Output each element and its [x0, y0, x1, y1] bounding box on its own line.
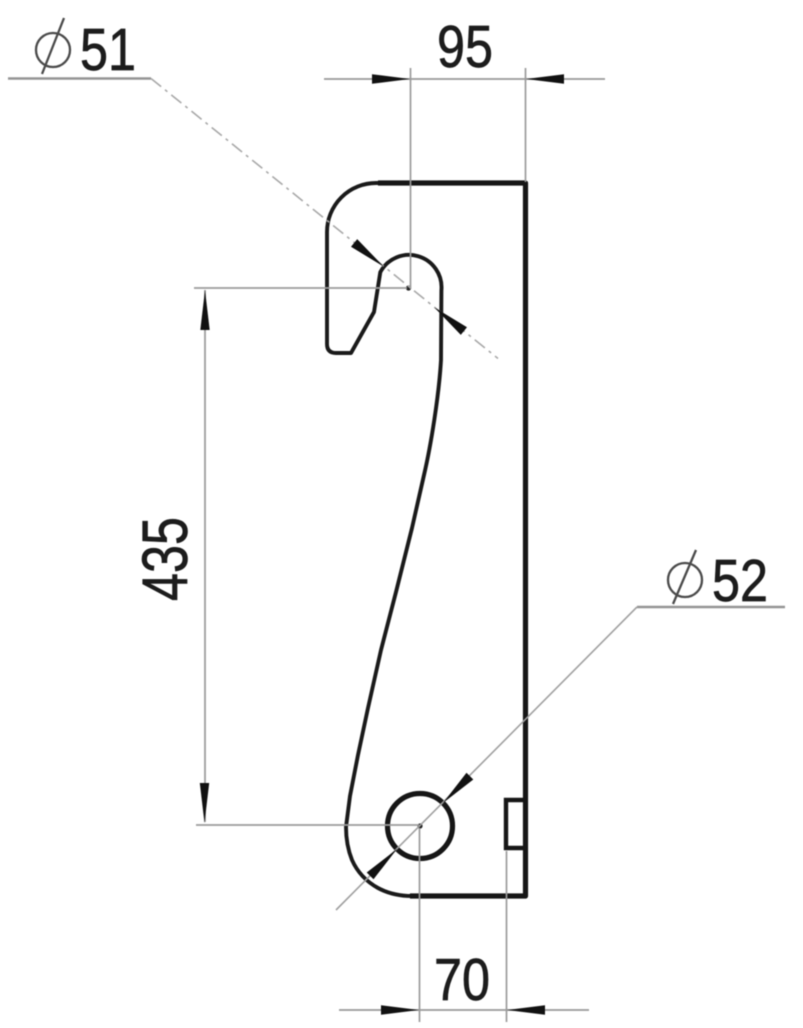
dim 70: dimension line — [339, 1009, 589, 1011]
svg-text:70: 70 — [434, 947, 490, 1013]
svg-text:51: 51 — [80, 17, 136, 83]
dim 435: bottom arrow — [200, 783, 209, 823]
label ⌀51: leader dash-dot line — [151, 79, 498, 359]
dim 70: right extension line — [506, 851, 508, 1022]
svg-text:52: 52 — [712, 548, 768, 614]
label ⌀52: leader line — [336, 607, 637, 910]
dim 435: bottom extension line — [196, 824, 419, 826]
label ⌀51: shoulder line — [8, 77, 151, 80]
dim 435: dimension line — [204, 290, 206, 822]
dim 435: top arrow — [200, 290, 209, 330]
label ⌀52: lower arrow — [367, 849, 397, 879]
center dot hook mouth — [406, 285, 411, 290]
label ⌀51: lower arrow — [434, 307, 467, 335]
dim 95: left arrow — [372, 74, 410, 84]
part edges (thicker top, right, bottom) — [378, 183, 526, 896]
dim 95: right arrow — [526, 74, 564, 84]
dim 95: right extension line — [525, 68, 527, 182]
label ⌀52: shoulder line — [637, 606, 785, 609]
svg-text:435: 435 — [129, 517, 201, 601]
dim 95: left extension line — [410, 68, 412, 289]
dim 70: left extension line — [419, 828, 421, 1022]
notch on right edge — [506, 800, 527, 848]
dim 95: dimension line — [324, 78, 605, 80]
dim 435: top extension line — [194, 287, 407, 289]
label ⌀52: upper arrow — [443, 773, 473, 803]
dim 70: left arrow — [381, 1005, 419, 1015]
svg-text:95: 95 — [437, 14, 493, 80]
hole circle ⌀52 — [388, 794, 453, 859]
label ⌀51: diameter symbol — [36, 18, 70, 74]
dim 70: right arrow — [507, 1005, 545, 1015]
label ⌀52: diameter symbol — [668, 550, 702, 604]
center dot hole — [417, 823, 422, 828]
label ⌀51: upper arrow — [351, 239, 384, 267]
part outline (hook bracket) — [327, 183, 526, 896]
